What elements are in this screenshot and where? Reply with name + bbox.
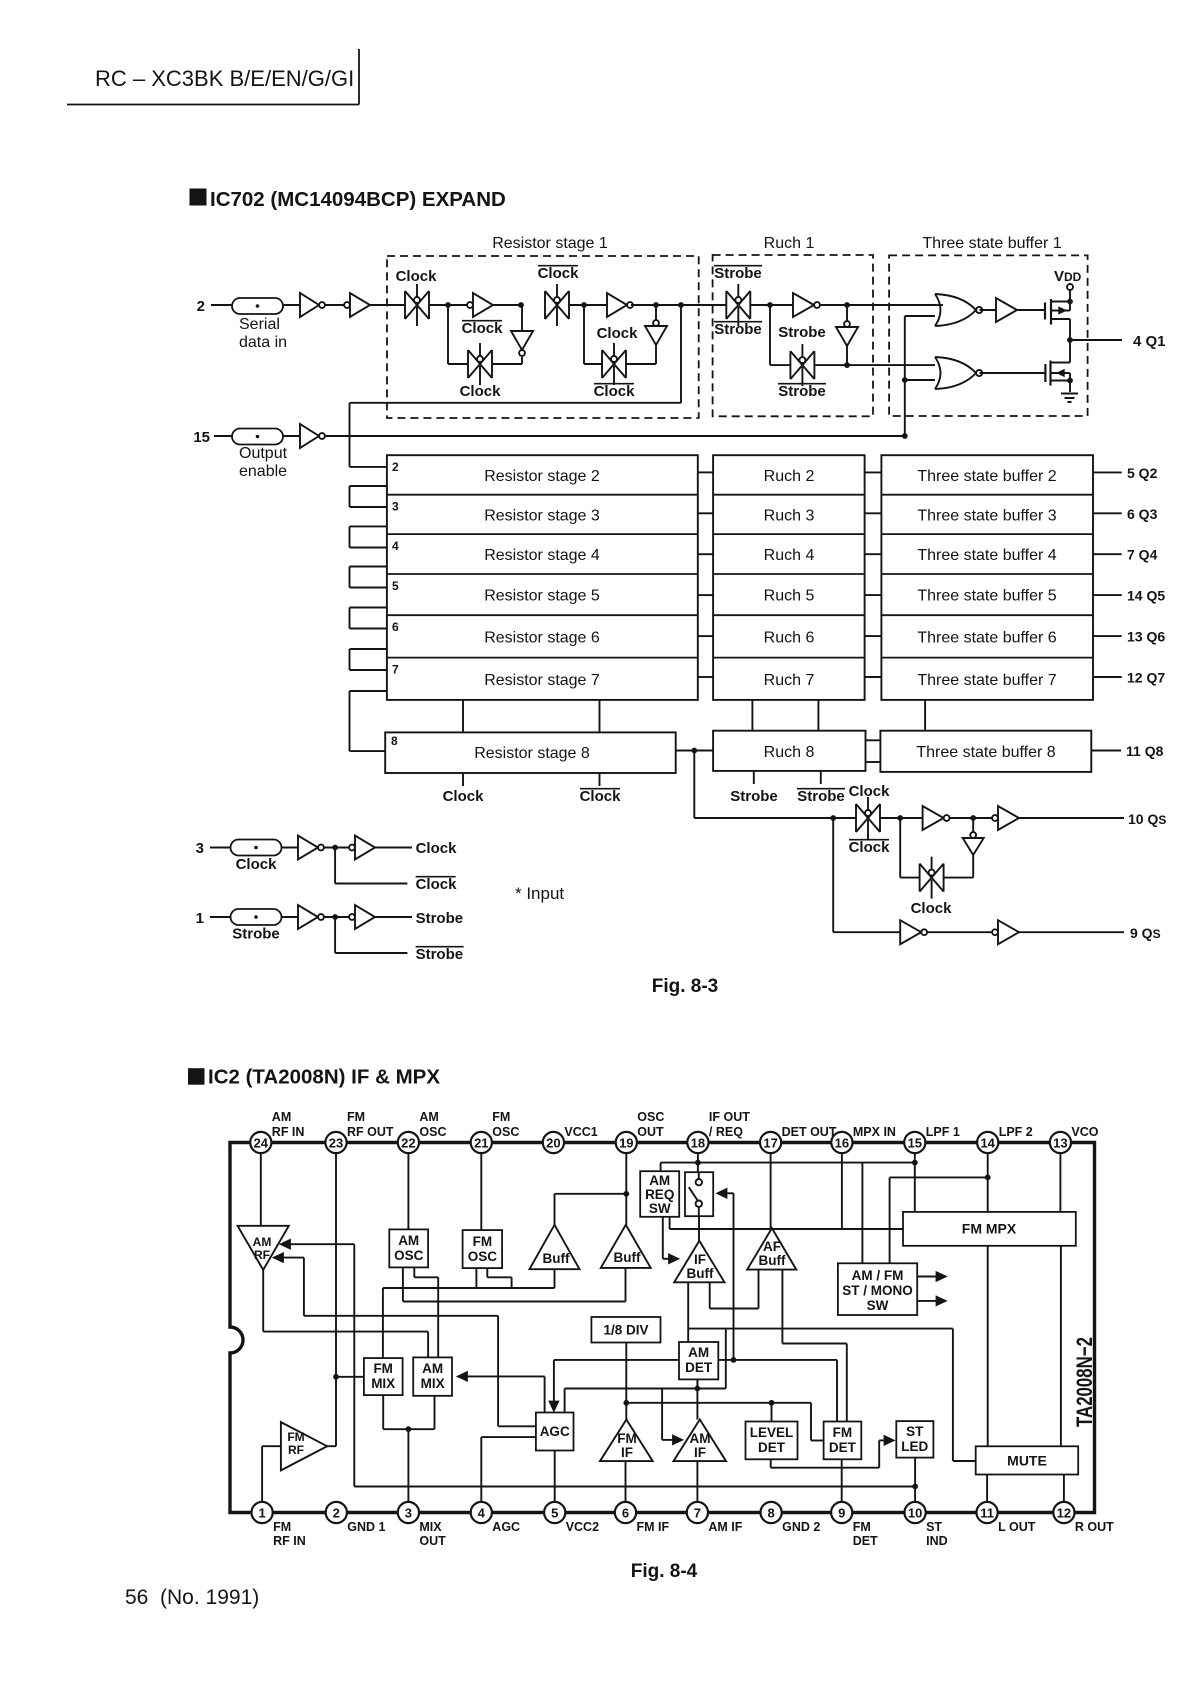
svg-text:AM: AM xyxy=(690,1431,711,1446)
output Q4 xyxy=(1093,553,1122,555)
wire IF Buff to AM DET xyxy=(687,1282,689,1342)
svg-text:15: 15 xyxy=(908,1136,922,1151)
wire stage3 to ruch3 xyxy=(698,512,713,514)
node n3 xyxy=(581,302,587,308)
svg-text:LEVEL: LEVEL xyxy=(750,1425,794,1440)
pin 18 xyxy=(687,1132,708,1153)
svg-text:ST: ST xyxy=(906,1424,924,1439)
wire serial link xyxy=(350,566,387,568)
svg-text:1/8 DIV: 1/8 DIV xyxy=(603,1323,648,1338)
svg-text:56 (No. 1991): 56 (No. 1991) xyxy=(125,1586,259,1609)
row divider xyxy=(387,614,698,616)
svg-text:Strobe: Strobe xyxy=(797,788,845,805)
wire xyxy=(980,309,997,311)
transmission gate TG4 Clock-bar lower-right xyxy=(601,350,603,378)
svg-text:16: 16 xyxy=(835,1136,849,1151)
svg-text:SW: SW xyxy=(867,1298,889,1313)
svg-text:FM: FM xyxy=(617,1431,637,1446)
svg-text:AM: AM xyxy=(419,1110,438,1124)
wire xyxy=(980,372,1046,374)
wire req sw stub 2 xyxy=(669,1217,671,1229)
svg-text:19: 19 xyxy=(619,1136,633,1151)
node n14 xyxy=(691,748,697,754)
node n2 xyxy=(518,302,524,308)
wire ruch4 to buffer4 xyxy=(865,553,882,555)
svg-text:Resistor stage 1: Resistor stage 1 xyxy=(492,235,608,252)
wire serial link xyxy=(350,607,387,609)
wire xyxy=(927,931,993,933)
svg-text:DET: DET xyxy=(853,1534,878,1548)
svg-text:OSC: OSC xyxy=(419,1125,446,1139)
node n20 xyxy=(333,1374,339,1380)
svg-text:SW: SW xyxy=(649,1201,671,1216)
svg-text:OUT: OUT xyxy=(637,1125,664,1139)
amplifier FM IF xyxy=(600,1420,653,1462)
pin 22 xyxy=(398,1132,419,1153)
svg-text:DET: DET xyxy=(829,1440,857,1455)
svg-text:AM / FM: AM / FM xyxy=(852,1268,904,1283)
node n6 xyxy=(902,433,908,439)
block FM MPX xyxy=(903,1212,1076,1246)
wire serial link xyxy=(350,525,387,527)
svg-text:ST / MONO: ST / MONO xyxy=(842,1283,913,1298)
NOR gate U1A xyxy=(935,294,941,326)
wire 10 QS output xyxy=(1019,817,1124,819)
svg-text:RF: RF xyxy=(254,1248,270,1262)
inverter A7 output enable xyxy=(300,424,319,448)
svg-text:8: 8 xyxy=(391,734,398,748)
buffer A19 xyxy=(349,914,355,920)
wire AGC to AM MIX arrow xyxy=(462,1375,545,1377)
svg-text:Strobe: Strobe xyxy=(232,926,280,943)
wire AM DET bottom xyxy=(696,1379,698,1388)
svg-text:FM: FM xyxy=(833,1425,853,1440)
svg-text:FM: FM xyxy=(853,1520,871,1534)
wire serial link stage7 to stage8 xyxy=(350,690,387,692)
wire pin15 vertical xyxy=(914,1153,916,1212)
svg-text:5 Q2: 5 Q2 xyxy=(1127,465,1158,481)
wire ST LED to pin10 xyxy=(914,1458,916,1502)
svg-text:Clock: Clock xyxy=(236,856,278,873)
transmission gate TG7 Clock QS xyxy=(855,804,857,832)
svg-text:AM: AM xyxy=(422,1361,443,1376)
box Ruch 8 xyxy=(713,731,865,771)
node n29 xyxy=(769,1400,775,1406)
buffer Buff1 xyxy=(530,1225,580,1269)
pin 24 xyxy=(250,1132,271,1153)
svg-text:Three state buffer 7: Three state buffer 7 xyxy=(917,672,1056,689)
pin 9 xyxy=(831,1502,852,1523)
svg-text:Strobe: Strobe xyxy=(416,946,464,963)
node n10 xyxy=(844,362,850,368)
switch REQ xyxy=(685,1172,713,1216)
pin 8 xyxy=(761,1502,782,1523)
transmission gate TG2 Clock lower-left xyxy=(467,350,469,378)
svg-text:R OUT: R OUT xyxy=(1075,1520,1114,1534)
svg-text:5: 5 xyxy=(392,579,399,593)
svg-text:OUT: OUT xyxy=(419,1534,446,1548)
svg-text:Buff: Buff xyxy=(687,1266,714,1281)
svg-text:MIX: MIX xyxy=(421,1376,445,1391)
svg-text:Output: Output xyxy=(239,445,288,462)
wire ruch1 lower output to NOR2 xyxy=(815,364,936,366)
wire xyxy=(900,877,919,879)
pin 7 xyxy=(687,1502,708,1523)
wire bottom long horizontal xyxy=(354,1486,915,1488)
svg-text:9: 9 xyxy=(838,1506,845,1521)
svg-text:VCO: VCO xyxy=(1071,1125,1098,1139)
pin 23 xyxy=(325,1132,346,1153)
svg-text:Ruch 3: Ruch 3 xyxy=(764,507,815,524)
svg-text:Fig. 8-4: Fig. 8-4 xyxy=(631,1561,698,1582)
wire AM RF to AM MIX xyxy=(262,1270,264,1332)
wire stage8 output down xyxy=(693,751,695,819)
pin 4 xyxy=(471,1502,492,1523)
svg-text:Three state buffer 4: Three state buffer 4 xyxy=(917,547,1056,564)
wire FM OSC to FM MIX and Buff1 xyxy=(475,1268,477,1288)
pin 5 xyxy=(544,1502,565,1523)
wire pin7 vertical AM IF xyxy=(696,1461,698,1502)
svg-text:Buff: Buff xyxy=(759,1253,786,1268)
ground xyxy=(1061,393,1078,395)
output Q8 xyxy=(1091,750,1121,752)
svg-text:Fig. 8-3: Fig. 8-3 xyxy=(652,976,719,997)
svg-text:/ REQ: / REQ xyxy=(709,1125,743,1139)
VDD terminal xyxy=(1069,290,1071,302)
wire drain to output xyxy=(1069,319,1071,340)
wire xyxy=(949,817,993,819)
svg-text:RF: RF xyxy=(288,1443,304,1457)
node n12 xyxy=(1067,378,1073,384)
wire AM OSC to Buff2 xyxy=(402,1267,404,1301)
pin 10 xyxy=(905,1502,926,1523)
svg-text:LED: LED xyxy=(901,1439,928,1454)
svg-text:4: 4 xyxy=(392,539,399,553)
wire arrow into AGC xyxy=(553,1360,555,1406)
wire AM REQ SW to IF Buff xyxy=(662,1217,664,1259)
inverter A18 xyxy=(298,905,318,929)
wire clock vertical xyxy=(462,700,464,733)
svg-text:ST: ST xyxy=(926,1520,942,1534)
node n1 xyxy=(445,302,451,308)
wire to FM MIX input xyxy=(336,1376,364,1378)
wire sw vertical from req line xyxy=(861,1163,863,1264)
wire stage2 to ruch2 xyxy=(698,471,713,473)
svg-text:Resistor stage 2: Resistor stage 2 xyxy=(484,468,600,485)
wire Q2 drain up xyxy=(1069,340,1071,363)
svg-text:1: 1 xyxy=(258,1506,265,1521)
svg-text:RF IN: RF IN xyxy=(273,1534,306,1548)
svg-text:IC702 (MC14094BCP) EXPAND: IC702 (MC14094BCP) EXPAND xyxy=(210,188,506,211)
wire xyxy=(429,304,521,306)
svg-text:OSC: OSC xyxy=(637,1110,664,1124)
wire ruch6 to buffer6 xyxy=(865,635,882,637)
row divider xyxy=(387,494,698,496)
wire pin23 vertical FM RF OUT xyxy=(335,1153,337,1446)
svg-text:5: 5 xyxy=(551,1506,558,1521)
svg-text:Clock: Clock xyxy=(849,839,891,856)
block AM REQ SW xyxy=(640,1171,679,1217)
svg-text:data in: data in xyxy=(239,334,287,351)
node n28 xyxy=(623,1400,629,1406)
svg-text:17: 17 xyxy=(763,1136,777,1151)
amplifier AM RF xyxy=(238,1226,289,1270)
svg-text:DET: DET xyxy=(685,1360,713,1375)
wire pin19 to Buff2 xyxy=(625,1153,627,1225)
wire ruch8 to buffer8 upper xyxy=(866,739,881,741)
inverter A1 xyxy=(300,293,319,317)
block AM OSC xyxy=(389,1229,428,1267)
svg-text:FM: FM xyxy=(273,1520,291,1534)
svg-text:OSC: OSC xyxy=(492,1125,519,1139)
wire ruch feedback xyxy=(769,305,771,365)
wire stage7 to ruch7 xyxy=(698,676,713,678)
svg-text:3: 3 xyxy=(405,1506,412,1521)
svg-text:Strobe: Strobe xyxy=(730,788,778,805)
wire pin4 to AGC xyxy=(480,1437,482,1502)
svg-text:FM IF: FM IF xyxy=(637,1520,670,1534)
wire FM RF output xyxy=(327,1445,336,1447)
svg-text:FM: FM xyxy=(473,1234,493,1249)
svg-text:MUTE: MUTE xyxy=(1007,1453,1047,1469)
svg-text:14: 14 xyxy=(980,1136,995,1151)
wire stage6 to ruch6 xyxy=(698,635,713,637)
wire mpx in horizontal xyxy=(670,1228,903,1230)
svg-text:AM: AM xyxy=(649,1173,670,1188)
wire 9QS branch down xyxy=(832,818,834,932)
wire stage1 to stage2 feedback xyxy=(680,305,682,403)
svg-text:RF IN: RF IN xyxy=(272,1125,305,1139)
block AM FM ST MONO SW xyxy=(838,1263,917,1315)
block FM MIX xyxy=(364,1358,403,1395)
svg-text:IND: IND xyxy=(926,1534,948,1548)
svg-text:Three state buffer 2: Three state buffer 2 xyxy=(917,468,1056,485)
wire gate lead upper xyxy=(1017,309,1045,311)
inverter A13 down QS xyxy=(972,818,974,832)
output Q3 xyxy=(1093,512,1122,514)
dashed box Ruch 1 xyxy=(713,255,873,416)
output Q6 xyxy=(1093,635,1122,637)
svg-text:Ruch 4: Ruch 4 xyxy=(764,547,815,564)
wire pin21 to FM OSC xyxy=(480,1153,482,1230)
svg-text:6: 6 xyxy=(392,620,399,634)
wire AM DET output to FM DET xyxy=(718,1359,837,1361)
wire stage5 to ruch5 xyxy=(698,594,713,596)
svg-text:10: 10 xyxy=(908,1506,922,1521)
svg-text:L OUT: L OUT xyxy=(998,1520,1036,1534)
wire to AGC left xyxy=(497,1316,499,1427)
svg-text:Clock: Clock xyxy=(443,788,485,805)
pin 12 xyxy=(1053,1502,1074,1523)
svg-text:REQ: REQ xyxy=(645,1187,674,1202)
wire xyxy=(880,817,923,819)
svg-text:FM: FM xyxy=(373,1361,393,1376)
svg-text:1: 1 xyxy=(196,910,204,927)
buffer IF Buff xyxy=(674,1241,724,1283)
node n4 xyxy=(653,302,659,308)
wire FM MPX to MUTE left channel xyxy=(987,1246,989,1447)
svg-text:Resistor stage 6: Resistor stage 6 xyxy=(484,629,600,646)
svg-text:Three state buffer 5: Three state buffer 5 xyxy=(917,588,1056,605)
wire FM OSC right stub xyxy=(486,1268,488,1277)
wire xyxy=(283,435,300,437)
buffer AF Buff xyxy=(747,1228,796,1270)
node n23 xyxy=(912,1160,918,1166)
wire pin14 branch to sw xyxy=(890,1176,988,1178)
svg-text:Ruch 8: Ruch 8 xyxy=(764,744,815,761)
svg-text:RC – XC3BK B/E/EN/G/GI: RC – XC3BK B/E/EN/G/GI xyxy=(95,66,354,91)
svg-text:7 Q4: 7 Q4 xyxy=(1127,547,1158,563)
svg-text:Ruch 1: Ruch 1 xyxy=(764,235,815,252)
svg-text:FM: FM xyxy=(347,1110,365,1124)
wire ruch5 to buffer5 xyxy=(865,594,882,596)
svg-text:12 Q7: 12 Q7 xyxy=(1127,670,1165,686)
block MUTE xyxy=(976,1446,1078,1474)
svg-text:6: 6 xyxy=(622,1506,629,1521)
wire xyxy=(370,304,405,306)
wire req top horizontal xyxy=(661,1162,915,1164)
inverter A9 down xyxy=(844,321,850,327)
wire xyxy=(751,304,794,306)
wire req switch to IF Buff apex xyxy=(698,1216,700,1241)
svg-text:MIX: MIX xyxy=(419,1520,442,1534)
svg-text:2: 2 xyxy=(197,298,205,315)
svg-text:4: 4 xyxy=(478,1506,486,1521)
wire AGC to pin5 xyxy=(554,1451,556,1503)
wire clock-bar vertical xyxy=(599,700,601,733)
wire pin17 to AF Buff xyxy=(770,1153,772,1228)
svg-text:6 Q3: 6 Q3 xyxy=(1127,506,1158,522)
svg-text:3: 3 xyxy=(196,840,204,857)
svg-text:7: 7 xyxy=(392,663,399,677)
wire strobe-bar vertical xyxy=(817,700,819,731)
svg-text:Strobe: Strobe xyxy=(416,910,464,927)
inverter A3 xyxy=(467,302,473,308)
svg-text:LPF 1: LPF 1 xyxy=(926,1125,960,1139)
pin 20 xyxy=(543,1132,564,1153)
wire 9 QS output xyxy=(1019,931,1124,933)
svg-text:2: 2 xyxy=(333,1506,340,1521)
wire pin13 to FM MPX xyxy=(1059,1153,1061,1212)
svg-text:18: 18 xyxy=(691,1136,705,1151)
section title IC2 (TA2008N) IF & MPX xyxy=(189,1069,205,1085)
wire sw mono arrows xyxy=(917,1276,941,1278)
svg-text:13: 13 xyxy=(1053,1136,1067,1151)
svg-text:VCC2: VCC2 xyxy=(566,1520,599,1534)
amplifier FM RF xyxy=(281,1422,327,1470)
transmission gate TG3 Clock-bar xyxy=(544,291,546,319)
svg-text:AM: AM xyxy=(688,1345,709,1360)
IC outline TA2008N xyxy=(230,1143,1095,1513)
pin 17 xyxy=(760,1132,781,1153)
svg-text:3: 3 xyxy=(392,500,399,514)
box Resistor stage 8 xyxy=(385,732,676,773)
wire horizontal 1402 xyxy=(626,1402,811,1404)
svg-text:8: 8 xyxy=(767,1506,774,1521)
wire xyxy=(820,304,935,306)
transmission gate TG5 Strobe-bar Ruch1 xyxy=(725,291,727,319)
wire xyxy=(569,304,607,306)
svg-text:Three state buffer 1: Three state buffer 1 xyxy=(922,235,1061,252)
svg-text:LPF 2: LPF 2 xyxy=(999,1125,1033,1139)
svg-text:Clock: Clock xyxy=(849,783,891,800)
wire MUTE to pin12 R OUT xyxy=(1063,1475,1065,1503)
svg-text:IF: IF xyxy=(694,1252,706,1267)
dashed box Three state buffer 1 xyxy=(889,255,1088,416)
wire AF Buff to FM DET xyxy=(781,1270,783,1344)
wire ruch8 to buffer8 lower xyxy=(866,761,881,763)
node n19 xyxy=(332,914,338,920)
wire pin1 to FM RF xyxy=(261,1446,263,1502)
inverter A4 down xyxy=(511,331,533,350)
MOSFET Q2 lower xyxy=(1044,364,1046,382)
svg-text:MIX: MIX xyxy=(371,1376,395,1391)
pin 21 xyxy=(471,1132,492,1153)
wire FM DET to pin9 xyxy=(841,1459,843,1502)
buffer A5 xyxy=(607,293,627,317)
svg-text:V: V xyxy=(1054,268,1064,285)
svg-text:* Input: * Input xyxy=(515,884,564,903)
svg-text:AM: AM xyxy=(253,1235,272,1249)
wire mixers to pin3 xyxy=(382,1395,384,1429)
svg-text:Clock: Clock xyxy=(416,840,458,857)
svg-text:Resistor stage 3: Resistor stage 3 xyxy=(484,507,600,524)
pin 16 xyxy=(831,1132,852,1153)
wire pin24 to AM RF xyxy=(260,1153,262,1226)
svg-text:23: 23 xyxy=(329,1136,343,1151)
dashed box Resistor stage 1 xyxy=(387,256,699,418)
svg-text:DET: DET xyxy=(758,1440,786,1455)
transmission gate TG6 Strobe Ruch1 xyxy=(789,351,791,379)
wire MUTE to pin11 L OUT xyxy=(986,1475,988,1503)
node n9 xyxy=(844,302,850,308)
pin 14 xyxy=(977,1132,998,1153)
node n17 xyxy=(970,815,976,821)
svg-text:GND 1: GND 1 xyxy=(347,1520,385,1534)
wire to LEVEL DET xyxy=(771,1403,773,1422)
svg-text:MPX IN: MPX IN xyxy=(853,1125,896,1139)
wire ruch2 to buffer2 xyxy=(865,471,882,473)
svg-text:Resistor stage 4: Resistor stage 4 xyxy=(484,547,600,564)
buffer A17 xyxy=(349,845,355,851)
svg-text:9 QS: 9 QS xyxy=(1130,925,1161,941)
svg-text:AGC: AGC xyxy=(540,1424,570,1439)
wire clock-bar out xyxy=(334,848,336,884)
svg-text:21: 21 xyxy=(474,1136,488,1151)
wire to ground xyxy=(1069,381,1071,393)
wire stage8 to ruch8 xyxy=(676,750,713,752)
svg-text:Clock: Clock xyxy=(911,900,953,917)
wire stage4 to ruch4 xyxy=(698,553,713,555)
node n7 xyxy=(902,377,908,383)
pin 1 xyxy=(252,1502,273,1523)
buffer A8 xyxy=(793,293,814,317)
svg-text:4 Q1: 4 Q1 xyxy=(1133,333,1166,350)
block AM MIX xyxy=(413,1357,452,1395)
buffer A14 xyxy=(900,920,921,944)
svg-text:24: 24 xyxy=(254,1136,269,1151)
svg-text:IF: IF xyxy=(621,1445,633,1460)
node n22 xyxy=(695,1160,701,1166)
wire AM DET left to AGC arrow xyxy=(554,1359,679,1361)
buffer Buff2 xyxy=(601,1225,651,1268)
node n31 xyxy=(406,1426,412,1432)
wire pin14 vertical xyxy=(987,1153,989,1212)
svg-text:Strobe: Strobe xyxy=(778,324,826,341)
wire AM DET to req switch xyxy=(733,1193,735,1360)
svg-text:Strobe: Strobe xyxy=(714,321,762,338)
svg-text:AM IF: AM IF xyxy=(708,1520,742,1534)
